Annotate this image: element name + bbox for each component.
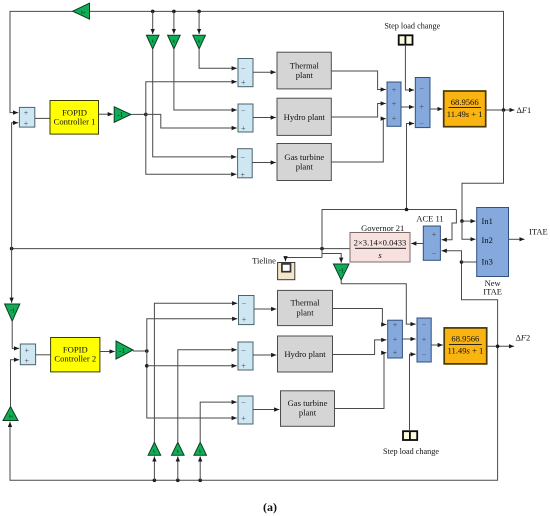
svg-text:Governor 21: Governor 21 [361,223,404,233]
svg-text:+: + [25,357,30,366]
svg-text:−: − [241,398,246,407]
svg-text:−: − [422,321,427,330]
svg-text:-1: -1 [10,308,15,314]
svg-text:k4: k4 [81,10,85,15]
svg-text:Gas turbine: Gas turbine [284,152,324,162]
svg-text:+: + [241,362,246,371]
svg-text:ΔF1: ΔF1 [517,106,532,115]
svg-text:−: − [420,84,425,93]
svg-text:68.9566: 68.9566 [451,97,480,107]
svg-text:−: − [242,299,247,308]
svg-text:Step load change: Step load change [384,22,440,31]
svg-text:+: + [392,100,397,109]
svg-text:+: + [393,348,398,357]
svg-text:Thermal: Thermal [290,60,320,70]
svg-text:Controller 1: Controller 1 [54,117,96,127]
svg-text:Gas turbine: Gas turbine [288,398,328,408]
svg-text:-1: -1 [119,347,125,355]
svg-text:+: + [241,414,246,423]
svg-text:-1: -1 [339,269,344,275]
svg-text:In3: In3 [482,257,493,267]
svg-text:−: − [432,249,437,258]
svg-text:+: + [432,230,437,239]
svg-text:+: + [25,346,30,355]
svg-text:+: + [393,335,398,344]
svg-text:plant: plant [299,408,317,418]
svg-text:+: + [393,321,398,330]
svg-text:ITAE: ITAE [483,286,502,296]
svg-text:In1: In1 [482,216,493,226]
svg-text:+: + [242,315,247,324]
svg-text:Thermal: Thermal [290,298,320,308]
svg-text:(a): (a) [263,500,277,514]
svg-text:+: + [422,335,427,344]
svg-text:In2: In2 [482,235,493,245]
svg-text:2×3.14×0.0433: 2×3.14×0.0433 [354,238,407,248]
svg-text:+: + [241,78,246,87]
svg-text:+: + [24,109,29,118]
svg-text:−: − [241,64,246,73]
svg-text:Tieline: Tieline [252,255,276,265]
svg-text:11.49s + 1: 11.49s + 1 [447,109,483,119]
svg-text:−: − [241,106,246,115]
svg-text:Controller 2: Controller 2 [54,354,96,364]
svg-text:plant: plant [296,162,314,172]
svg-text:-1: -1 [117,111,123,119]
svg-text:−: − [420,120,425,129]
svg-text:Step load change: Step load change [383,447,439,456]
svg-text:ITAE: ITAE [529,227,548,237]
svg-text:+: + [392,86,397,95]
svg-text:+: + [392,114,397,123]
svg-text:plant: plant [296,307,314,317]
svg-text:ΔF2: ΔF2 [516,334,531,343]
svg-text:+: + [241,170,246,179]
svg-text:Hydro plant: Hydro plant [284,349,326,359]
svg-text:+: + [420,103,425,112]
svg-text:−: − [241,346,246,355]
svg-text:68.9566: 68.9566 [451,334,480,344]
svg-text:−: − [241,153,246,162]
svg-text:+: + [241,124,246,133]
svg-text:+: + [24,119,29,128]
svg-text:plant: plant [296,70,314,80]
svg-text:−: − [422,350,427,359]
svg-text:k4: k4 [9,414,13,419]
svg-text:Hydro plant: Hydro plant [284,112,326,122]
svg-text:11.49s + 1: 11.49s + 1 [447,346,483,356]
svg-text:ACE 11: ACE 11 [416,214,443,224]
